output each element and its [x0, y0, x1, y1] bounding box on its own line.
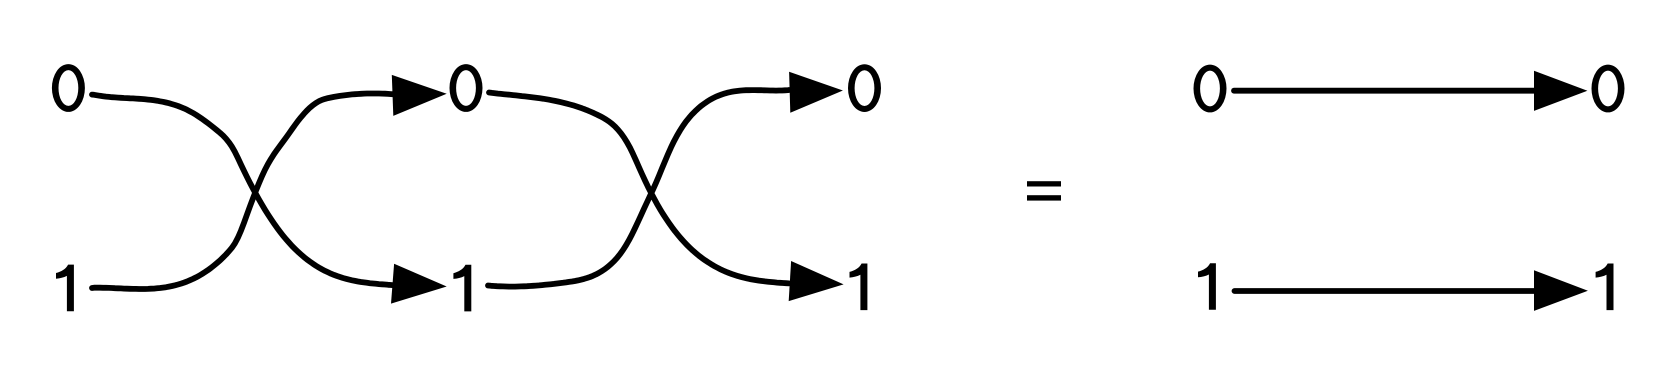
node label 1 (identity left): [1198, 263, 1216, 310]
node label 0 (identity left): [1194, 65, 1227, 113]
node label 1 (middle): [453, 265, 471, 312]
wire identity top: [1234, 88, 1537, 94]
node label 1 (identity right): [1596, 264, 1614, 311]
node label 0 (left input): [52, 64, 85, 112]
arrowhead into right 1: [789, 261, 844, 301]
wire swap2 top input to bottom output: [489, 93, 789, 284]
node label 0 (middle): [450, 64, 483, 112]
wire swap1 top input to bottom output: [92, 95, 393, 286]
wire swap2 bottom input to top output: [488, 90, 789, 287]
arrowhead identity top: [1534, 71, 1587, 111]
node label 0 (right of swaps): [848, 64, 881, 112]
wire identity bottom: [1235, 288, 1538, 294]
arrowhead identity bottom: [1534, 270, 1588, 311]
node label 1 (right of swaps): [850, 264, 868, 311]
equals sign top bar: [1027, 181, 1061, 186]
wire swap1 bottom input to top output: [92, 94, 393, 290]
equals sign bottom bar: [1027, 195, 1061, 200]
node label 1 (left input): [56, 265, 74, 312]
arrowhead into middle 1: [391, 264, 447, 304]
arrowhead into middle 0: [392, 75, 447, 116]
node label 0 (identity right): [1592, 65, 1625, 113]
arrowhead into right 0: [789, 72, 843, 113]
